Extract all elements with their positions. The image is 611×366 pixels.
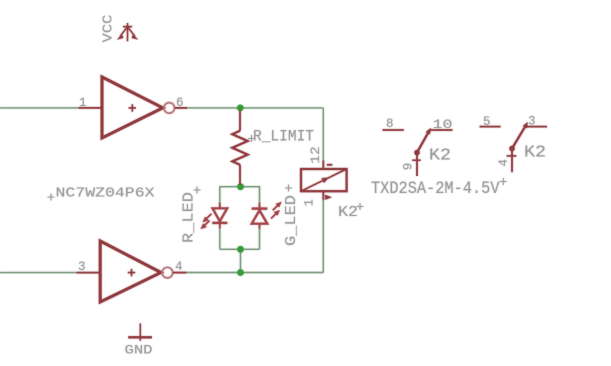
svg-text:NC7WZ04P6X: NC7WZ04P6X (56, 185, 156, 201)
svg-text:TXD2SA-2M-4.5V: TXD2SA-2M-4.5V (371, 179, 500, 199)
wire LED box left upper (219, 186, 221, 203)
junction LED box top (237, 183, 244, 190)
wire IC1A output to node A (187, 107, 324, 109)
wire net to IC1A input (0, 107, 79, 109)
svg-text:K2: K2 (429, 147, 451, 166)
LED G_LED (252, 202, 281, 229)
svg-text:3: 3 (78, 260, 86, 274)
LED R_LED (201, 203, 227, 229)
svg-text:4: 4 (175, 260, 183, 274)
svg-text:G_LED: G_LED (284, 195, 300, 246)
origin cross TXD2SA (500, 178, 507, 185)
svg-text:9: 9 (402, 163, 416, 171)
svg-text:R_LIMIT: R_LIMIT (253, 128, 314, 146)
junction LED box bottom (237, 246, 244, 253)
svg-text:K2: K2 (338, 204, 358, 221)
svg-text:R_LED: R_LED (182, 192, 198, 243)
wire LED box top (220, 186, 260, 188)
svg-text:3: 3 (528, 115, 536, 129)
relay coil K2 (301, 160, 347, 200)
wire right vertical lower (from coil pin 1) (322, 200, 324, 273)
wire bottom horizontal to IC1B output (186, 272, 323, 274)
junction node A (240,108) (237, 105, 244, 112)
svg-text:1: 1 (303, 199, 317, 207)
svg-text:4: 4 (497, 159, 511, 167)
wire net to IC1B input (0, 272, 77, 274)
supply VCC symbol (118, 23, 137, 41)
origin cross G_LED (285, 185, 292, 192)
svg-text:K2: K2 (524, 144, 546, 163)
relay contact K2 S1 (383, 129, 453, 176)
ground GND symbol (128, 323, 152, 340)
wire LED box bottom to bottom rail (240, 249, 242, 272)
wire right vertical upper (to coil pin 12) (322, 108, 324, 160)
wire LED box right upper (259, 186, 261, 203)
svg-text:VCC: VCC (101, 15, 117, 43)
inverter gate IC1B (77, 241, 187, 302)
origin cross R_LIMIT (248, 135, 255, 142)
wire LED box right lower (259, 229, 261, 250)
svg-text:8: 8 (386, 117, 394, 131)
wire LED box bottom (220, 248, 260, 250)
svg-text:6: 6 (176, 96, 184, 110)
svg-text:12: 12 (309, 146, 323, 164)
origin cross R_LED (194, 187, 201, 194)
origin cross K2 coil (357, 203, 364, 210)
svg-text:GND: GND (125, 343, 153, 357)
inverter gate IC1A (79, 77, 188, 138)
relay contact K2 S2 (480, 123, 548, 172)
junction bottom rail (237, 269, 244, 276)
svg-text:10: 10 (433, 118, 453, 132)
wire LED box left lower (219, 228, 221, 249)
resistor R_LIMIT (232, 110, 247, 185)
svg-text:5: 5 (483, 115, 491, 129)
origin cross NC7WZ04P6X (48, 194, 55, 201)
svg-text:1: 1 (79, 96, 87, 110)
